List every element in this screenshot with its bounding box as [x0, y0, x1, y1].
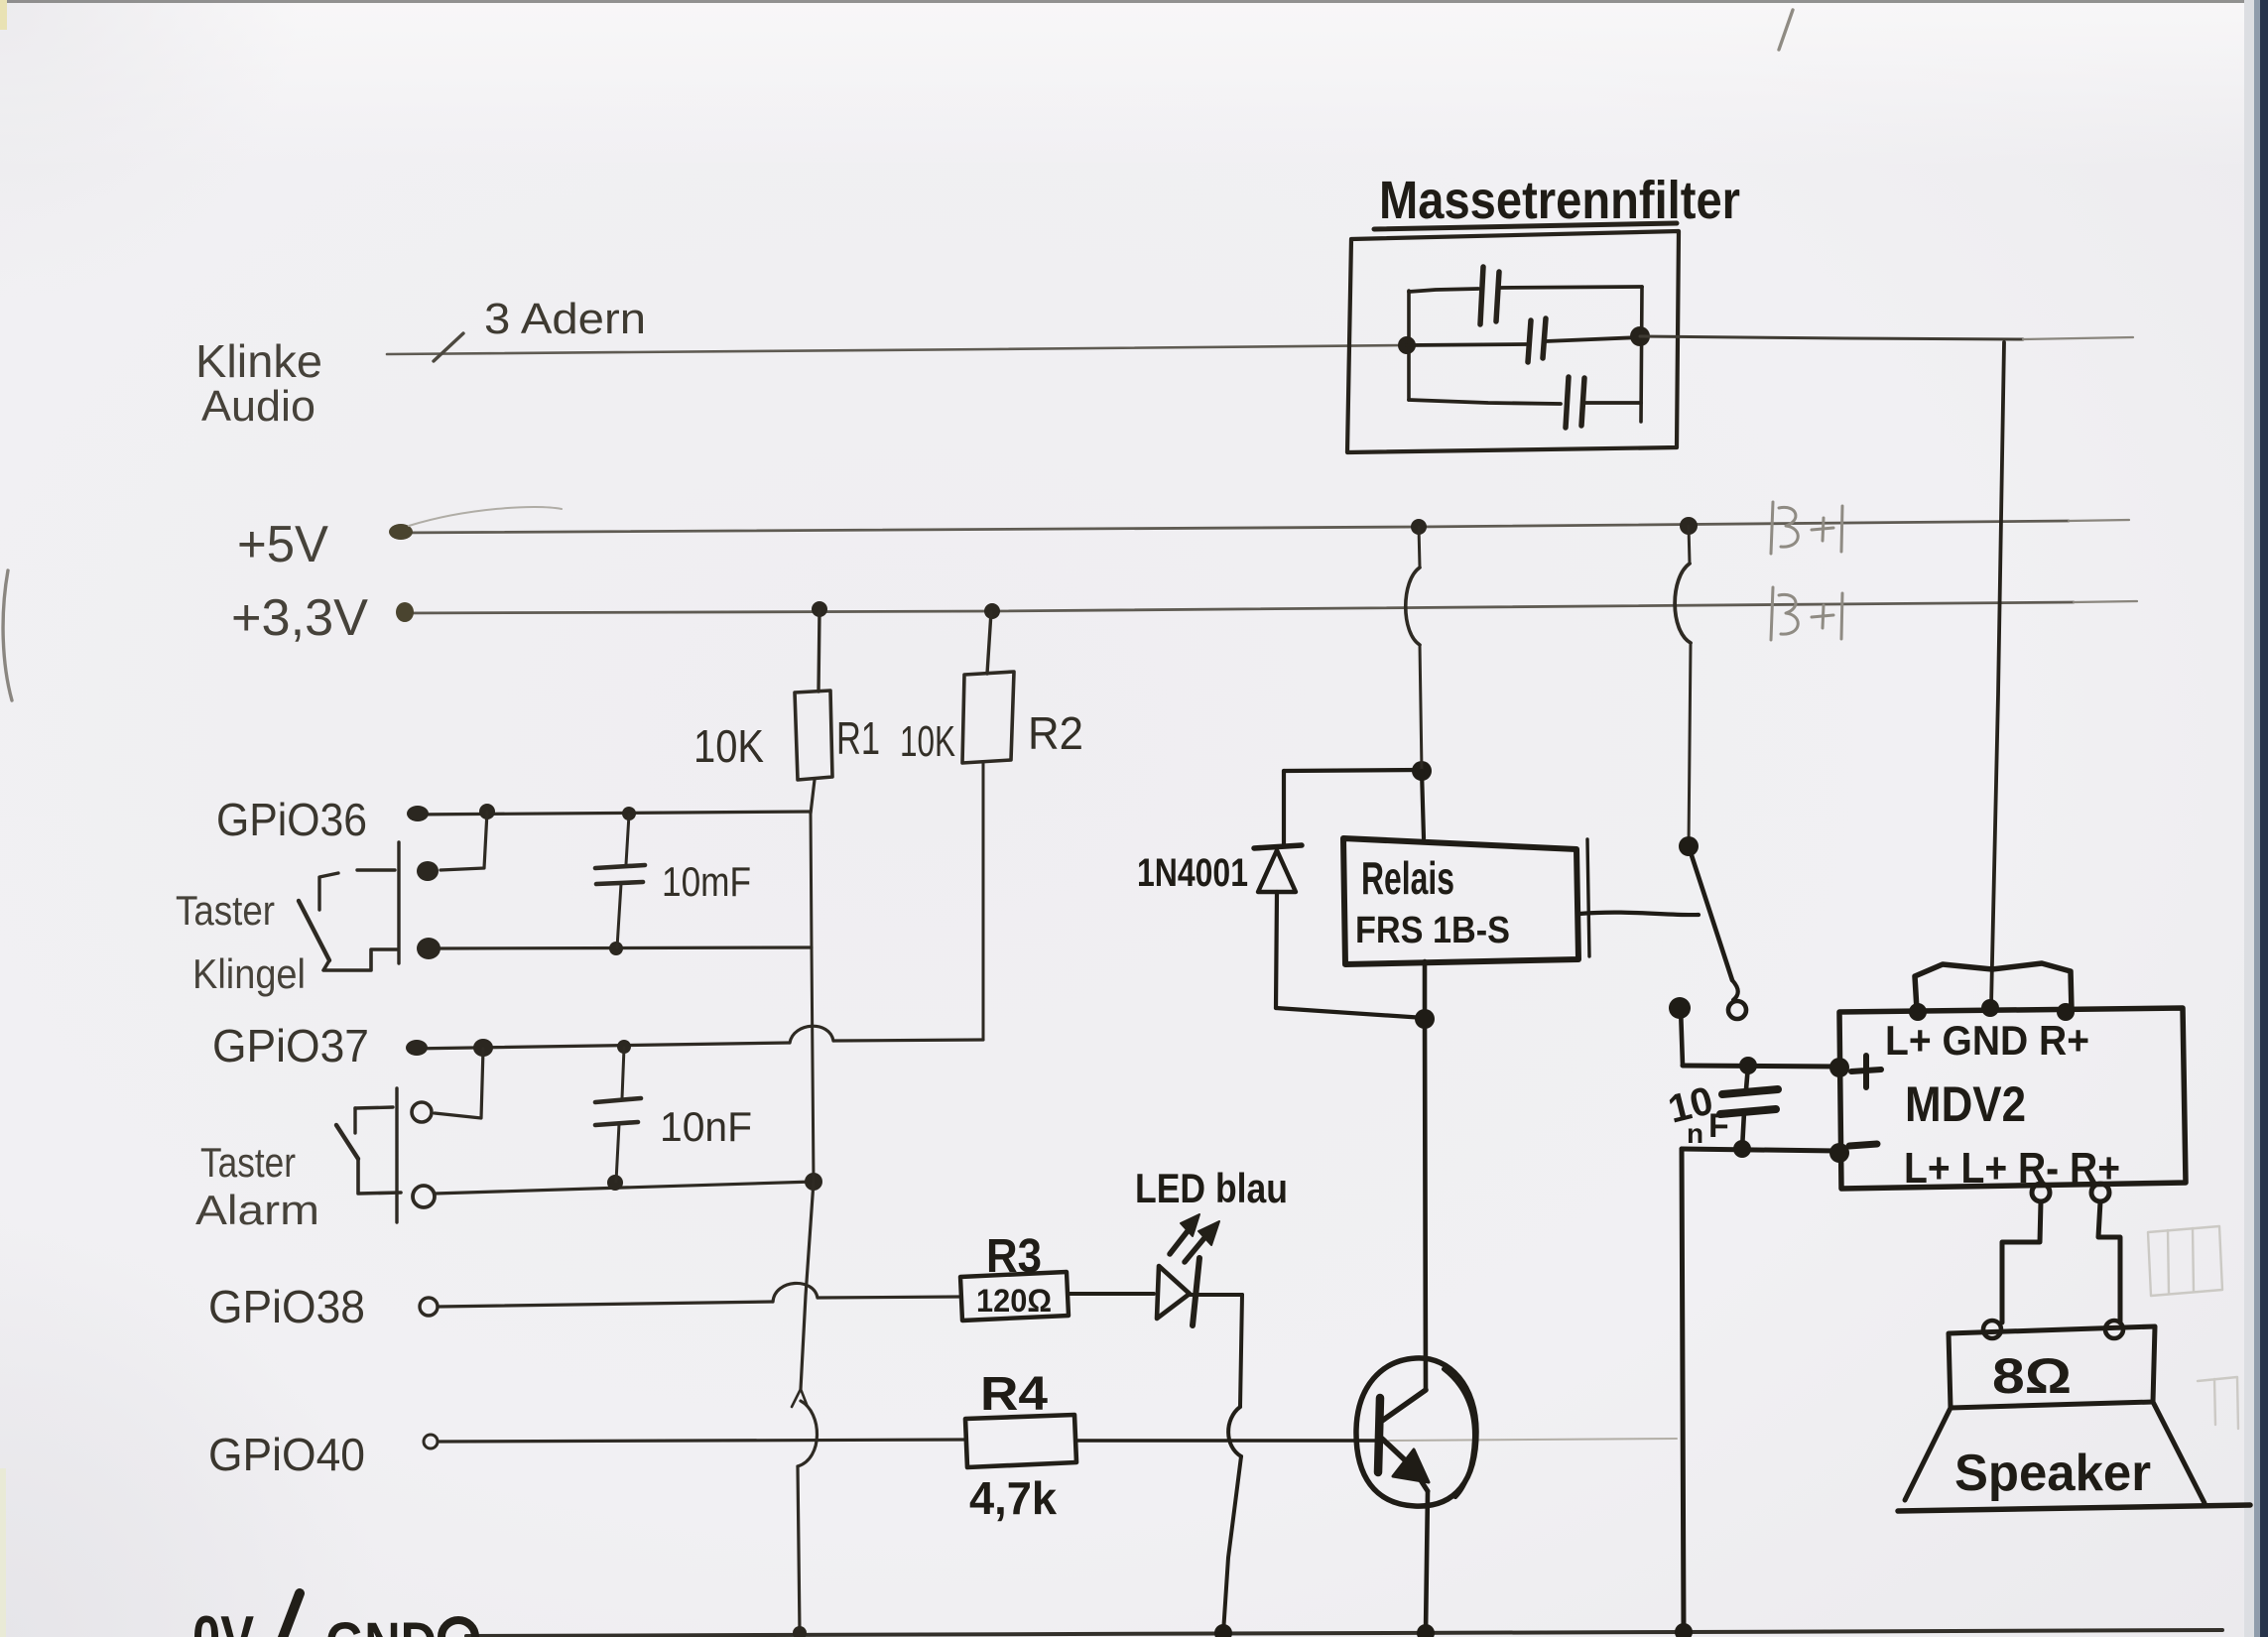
wire filter inner left [1407, 291, 1411, 400]
wire common drop (Klingel/Alarm to GND, with hops) [811, 813, 814, 1182]
wire audio line after filter + drop to amplifier GND pin [1640, 336, 2023, 339]
svg-text:+3,3V: +3,3V [231, 589, 368, 647]
node filter output [1630, 326, 1650, 346]
svg-text:Relais: Relais [1361, 852, 1454, 904]
relay contact pivot [1679, 836, 1699, 856]
junction - node / C4 [1733, 1140, 1751, 1158]
node filter input [1398, 336, 1416, 354]
junction +3.3V / R1 [812, 601, 827, 617]
wire R+ to speaker right terminal [2098, 1201, 2120, 1322]
wire - node to GND [1682, 1149, 1684, 1632]
svg-text:GPiO40: GPiO40 [208, 1429, 365, 1480]
junction GPIO37 / switch drop [473, 1039, 493, 1057]
wire GPIO36 to Klingel switch top contact [441, 812, 487, 870]
junction common drop / GND rail [793, 1626, 807, 1637]
junction GPIO37 / C2 [617, 1040, 631, 1054]
pencil mark B+ (on +3,3V) [1771, 587, 1842, 640]
speaker terminal right [2105, 1321, 2123, 1338]
wire transistor emitter to GND [1426, 1491, 1428, 1633]
svg-text:R1: R1 [836, 712, 880, 764]
svg-text:Klinke: Klinke [195, 335, 322, 387]
junction GPIO36 / switch drop [479, 804, 495, 819]
junction + node / C4 [1739, 1057, 1757, 1074]
relay Relais FRS 1B-S (coil box) [1343, 838, 1578, 964]
relay contact lever [1689, 846, 1732, 980]
amplifier MDV2 box [1839, 1008, 2186, 1189]
wire GPIO38 line with hop [420, 1298, 438, 1316]
junction Alarm / common drop [805, 1173, 822, 1191]
svg-text:Klingel: Klingel [192, 950, 306, 997]
pencil mark B+ (on +5V) [1771, 502, 1842, 554]
svg-text:10mF: 10mF [662, 858, 751, 905]
pencil stray mark (top right) [1779, 10, 1793, 50]
capacitor filter C-top [1409, 289, 1478, 292]
wire filter inner right [1641, 287, 1642, 422]
svg-text:1N4001: 1N4001 [1137, 851, 1248, 895]
Massetrennfilter box [1347, 231, 1679, 452]
wire +5V to relay coil (hop over +3.3V) [1411, 519, 1427, 535]
photo top edge [0, 0, 2268, 3]
wire R- to speaker left terminal [2002, 1201, 2041, 1322]
svg-text:0V: 0V [192, 1604, 254, 1637]
svg-text:GPiO38: GPiO38 [208, 1281, 365, 1332]
svg-text:n: n [1687, 1118, 1703, 1149]
wire junction to relay coil top [1422, 771, 1424, 838]
svg-text:Alarm: Alarm [195, 1187, 319, 1233]
svg-text:Taster: Taster [176, 887, 275, 934]
resistor R4 [965, 1415, 1076, 1467]
pushbutton Taster Alarm [412, 1102, 432, 1122]
svg-text:8Ω: 8Ω [1992, 1348, 2072, 1404]
wire - node line [1682, 1149, 1837, 1151]
capacitor C2 10nF (GPIO37) [622, 1048, 624, 1098]
wire +5V to relay contact pivot (hop over +3.3V) [1680, 517, 1698, 535]
junction emitter / GND rail [1417, 1624, 1435, 1637]
svg-text:L+ L+ R- R+: L+ L+ R- R+ [1904, 1144, 2120, 1193]
transistor Q1 [1356, 1358, 1476, 1506]
wire R3 to LED anode [1069, 1292, 1154, 1296]
svg-text:Speaker: Speaker [1954, 1445, 2151, 1502]
LED blau D2 [1157, 1266, 1190, 1319]
power rail +5V [393, 521, 2069, 533]
cable slash mark (3 Adern) [434, 333, 463, 361]
wire R4 to transistor base [1076, 1439, 1382, 1443]
pin + (left) [1829, 1058, 1849, 1077]
junction - drop / GND rail [1675, 1623, 1693, 1637]
wire GPIO36 line [410, 812, 811, 815]
relay contact NO terminal [1728, 1001, 1746, 1019]
wire: Klinke/Audio line (3 Adern) [387, 345, 1407, 354]
svg-text:GPiO37: GPiO37 [212, 1020, 369, 1071]
svg-text:Audio: Audio [201, 382, 315, 431]
wire R2 bottom to GPIO37 line [982, 763, 985, 1040]
svg-text:4,7k: 4,7k [969, 1472, 1057, 1524]
wire bridge L+ to R+ [1915, 963, 2072, 1010]
pin R- (bottom) [2032, 1184, 2050, 1201]
svg-text:L+ GND R+: L+ GND R+ [1885, 1017, 2089, 1064]
wire GPIO37 line with hop [410, 1043, 790, 1049]
resistor R3 [960, 1272, 1069, 1321]
svg-text:10K: 10K [693, 720, 764, 772]
pin L+ (top) [1909, 1003, 1927, 1021]
ground rail 0V/GND [466, 1630, 2222, 1636]
pushbutton Taster Klingel [397, 842, 400, 963]
diode D1 1N4001 (flyback) [1254, 845, 1302, 848]
capacitor filter C-mid [1407, 344, 1526, 345]
junction Alarm / C2 [607, 1175, 623, 1191]
faint pencil guideline right of transistor [1389, 1439, 1677, 1441]
speaker terminal left [1983, 1321, 2001, 1338]
wire relay coil to transistor collector [1425, 1019, 1426, 1389]
svg-text:Massetrennfilter: Massetrennfilter [1379, 171, 1740, 230]
photo edge (right, blue) [2244, 0, 2256, 1637]
speaker horn [1905, 1408, 1951, 1500]
svg-text:+5V: +5V [237, 516, 328, 573]
wire contact to amplifier + node [1681, 1008, 1683, 1066]
wire relay coil box to lever [1579, 913, 1699, 916]
capacitor C4 10nF (amp input) [1746, 1066, 1748, 1089]
svg-text:120Ω: 120Ω [976, 1283, 1052, 1319]
speaker 8 Ohm box [1949, 1326, 2155, 1408]
junction LED drop / GND rail [1214, 1624, 1232, 1637]
junction coil bottom / diode / collector [1415, 1009, 1435, 1029]
svg-text:GPiO36: GPiO36 [216, 794, 367, 845]
svg-text:3 Adern: 3 Adern [484, 295, 646, 343]
wire Alarm line [435, 1182, 814, 1194]
pencil sketch (erased) right margin [2148, 1226, 2238, 1429]
resistor R2 10K [987, 612, 991, 674]
junction diode / +5V feed / relay top [1412, 761, 1432, 781]
svg-text:FRS 1B-S: FRS 1B-S [1355, 910, 1510, 951]
pin - (left) [1829, 1143, 1849, 1163]
svg-text:Taster: Taster [200, 1139, 296, 1186]
svg-text:R4: R4 [980, 1368, 1048, 1421]
svg-text:LED blau: LED blau [1135, 1165, 1288, 1211]
svg-text:10K: 10K [900, 717, 955, 766]
junction Klingel / C1 [609, 942, 623, 955]
wire relay coil bottom [1423, 961, 1428, 1019]
svg-text:10nF: 10nF [660, 1103, 752, 1150]
wire GPIO37 to Alarm switch top contact [435, 1049, 483, 1118]
wire GPIO40 line [424, 1435, 438, 1448]
svg-text:R2: R2 [1028, 707, 1083, 759]
svg-text:GND: GND [325, 1611, 437, 1637]
svg-text:MDV2: MDV2 [1905, 1076, 2026, 1132]
pin R+ (bottom) [2091, 1184, 2109, 1201]
resistor R1 10K [819, 611, 819, 692]
pin GND (top) [1981, 999, 1999, 1017]
svg-text:F: F [1708, 1107, 1729, 1145]
junction +3.3V / R2 [984, 603, 1000, 619]
capacitor filter C-bottom [1409, 400, 1561, 404]
power rail +3,3V [400, 602, 2074, 613]
relay contact common terminal [1669, 997, 1691, 1019]
junction GPIO36 / C1 [622, 807, 636, 820]
pencil stray mark (left edge) [3, 570, 12, 700]
pin R+ (top) [2057, 1003, 2075, 1021]
wire Klingel line [441, 947, 812, 948]
capacitor C1 10nF (GPIO36) [626, 815, 629, 864]
wire LED cathode drop to GND (hop over GPIO40) [1190, 1293, 1242, 1297]
